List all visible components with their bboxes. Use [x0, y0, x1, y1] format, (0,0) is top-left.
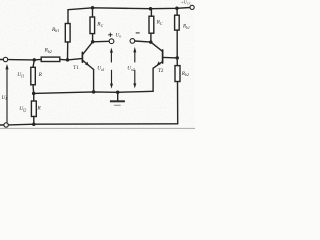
svg-text:T1: T1: [73, 66, 79, 71]
arrowhead T1 emitter: [85, 62, 89, 66]
wire input top stub: [0, 59, 3, 61]
wire Uo2 arrow lower shaft: [134, 70, 136, 84]
ground bar 2: [114, 104, 121, 106]
wire mid rail: [34, 91, 153, 93]
junction T1 emitter rail: [92, 90, 96, 94]
wire T1 collector diagonal: [83, 42, 93, 55]
junction T2 base node: [175, 56, 179, 60]
wire right branch up from bottom rail: [177, 82, 179, 124]
wire RC1 top stub: [92, 8, 94, 17]
resistor Rb2 horizontal: [41, 57, 60, 61]
resistor Rb2 right: [175, 66, 180, 82]
junction node A: [66, 58, 70, 62]
wire T2 collector up to RC2: [150, 33, 152, 42]
junction node B: [33, 58, 37, 62]
terminal output 1: [109, 39, 114, 44]
arrowhead Uo1 down: [110, 84, 113, 89]
wire T2 emitter diagonal: [153, 62, 162, 69]
wire T1 collector up to RC1: [92, 34, 94, 42]
junction Rb1 right top: [175, 7, 179, 11]
transistor T2 bar: [162, 50, 164, 63]
transistor T1 bar: [81, 52, 83, 62]
junction mid left: [32, 92, 36, 96]
wire top rail: [68, 8, 190, 10]
wire bottom rail: [8, 124, 177, 125]
svg-text:T2: T2: [158, 68, 164, 74]
wire R1 bottom to mid node: [32, 85, 35, 94]
junction bottom rail R2: [32, 122, 36, 126]
arrowhead Uo1 up: [110, 48, 113, 53]
wire node B to Rb2: [34, 58, 41, 61]
wire T1 emitter down: [93, 70, 95, 92]
terminal output 2: [130, 39, 135, 44]
wire base T2: [163, 56, 177, 59]
arrowhead Uo2 down: [133, 83, 136, 88]
ground bar 1: [110, 100, 125, 102]
svg-text:R: R: [38, 72, 43, 78]
wire Rb1 bottom to node A: [67, 42, 69, 60]
wire T2 collector diagonal: [151, 42, 163, 51]
figure bottom edge line: [0, 127, 195, 129]
label minus sign of Uo: [136, 32, 140, 34]
wire node B down to R1: [33, 60, 34, 67]
label plus sign of Uo: [108, 33, 140, 37]
terminal input top: [3, 57, 7, 61]
resistor Rb1 right: [175, 15, 180, 30]
wire Uo2 arrow upper shaft: [134, 52, 136, 62]
wire base T1: [68, 59, 82, 60]
wire UI arrow shaft: [6, 69, 8, 123]
wire input top to node B: [8, 59, 35, 61]
wire Rb2 right top stub: [176, 58, 178, 66]
terminal input bottom: [4, 123, 8, 127]
arrowhead T2 emitter: [157, 61, 161, 65]
wire R2 bottom to bottom rail: [33, 117, 35, 125]
wire Rb2 to node A: [60, 58, 68, 61]
resistor RC2: [149, 16, 154, 33]
junction T1 collector: [91, 40, 95, 44]
junction ground stub: [116, 91, 120, 95]
resistor R2: [31, 101, 36, 117]
resistor R1: [31, 67, 36, 85]
terminal Ucc top right: [190, 5, 194, 9]
wire collector T1 to output terminal 1: [93, 40, 109, 43]
junction RC1 top: [91, 6, 95, 10]
svg-text:R: R: [36, 106, 41, 112]
wire RC2 top stub: [150, 9, 152, 17]
junction T2 collector: [149, 40, 153, 44]
resistor Rb1: [65, 24, 70, 43]
resistor RC1: [90, 17, 95, 34]
wire Uo1 arrow upper shaft: [110, 52, 112, 62]
arrow UI: [5, 64, 8, 69]
svg-text:Uo: Uo: [115, 33, 121, 39]
wire Rb1 right bottom to T2 base node: [176, 30, 178, 58]
wire input bottom stub: [0, 124, 4, 126]
arrowhead Uo2 up: [133, 47, 136, 53]
wire Uo1 arrow lower shaft: [111, 70, 113, 84]
wire T1 emitter diagonal: [83, 60, 94, 69]
wire ground stub: [117, 92, 119, 100]
wire T2 emitter down: [152, 68, 154, 91]
wire output terminal 2 to T2 collector: [135, 41, 151, 42]
wire Rb1 right top stub: [176, 8, 178, 15]
wire Rb1 top stub: [67, 10, 69, 24]
wire mid node to R2: [33, 93, 35, 101]
junction RC2 top: [149, 7, 153, 11]
